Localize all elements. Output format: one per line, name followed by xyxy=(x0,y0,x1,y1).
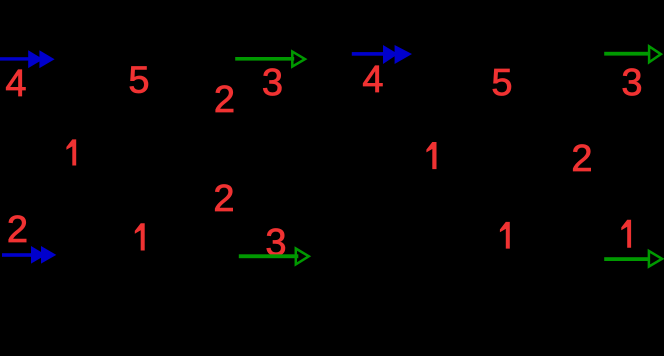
svg-text:4: 4 xyxy=(5,63,26,105)
node 1 middle-right xyxy=(426,142,436,169)
svg-text:3: 3 xyxy=(621,62,642,104)
svg-text:5: 5 xyxy=(128,60,149,102)
svg-text:2: 2 xyxy=(571,138,592,180)
node 1 bottom-right xyxy=(621,220,631,248)
svg-text:5: 5 xyxy=(491,62,512,104)
wire green open-head arrow top-right xyxy=(604,46,661,62)
wire blue double-head arrow bottom-left xyxy=(2,246,56,264)
svg-text:3: 3 xyxy=(262,62,283,104)
svg-text:2: 2 xyxy=(213,178,234,220)
svg-text:4: 4 xyxy=(362,59,383,101)
svg-text:2: 2 xyxy=(7,209,28,251)
wire green open-head arrow top-left xyxy=(235,52,305,67)
node 1 middle-left xyxy=(66,139,76,165)
wire green open-head arrow bottom-right xyxy=(604,251,662,267)
wire blue double-head arrow top-left xyxy=(0,50,55,68)
svg-text:2: 2 xyxy=(214,79,235,121)
node 1 bottom-left xyxy=(135,223,145,250)
wire green open-head arrow bottom-left xyxy=(239,249,309,265)
wire blue double-head arrow top-right xyxy=(352,45,412,64)
node 1 bottom-middle-right xyxy=(500,222,510,249)
